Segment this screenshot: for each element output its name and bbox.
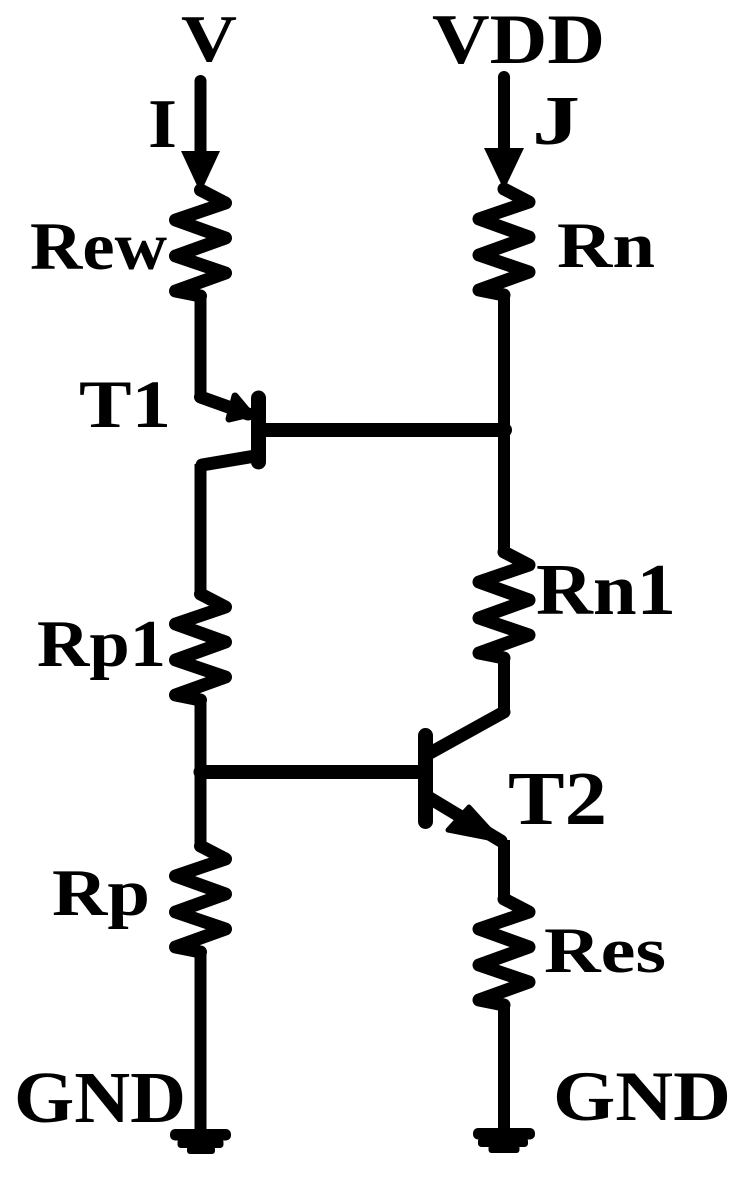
current I arrowhead [181, 151, 220, 193]
svg-text:T2: T2 [508, 757, 607, 841]
wire T2 emitter to Res [498, 840, 510, 899]
resistor Res [479, 899, 529, 1005]
resistor Rew [176, 190, 226, 296]
resistor Rn [479, 189, 529, 295]
svg-text:Rn1: Rn1 [536, 549, 676, 630]
svg-text:GND: GND [14, 1057, 186, 1138]
wire T2 base to left branch node [201, 765, 424, 779]
wire Rp to GND [195, 951, 207, 1133]
svg-text:I: I [148, 86, 177, 163]
svg-text:Res: Res [544, 915, 666, 987]
wire Rn1 to T2 collector [498, 657, 510, 713]
current J arrowhead [484, 148, 524, 190]
wire V supply arrow shaft [195, 81, 207, 158]
wire Rn to Rn1 (right branch through base junction) [498, 294, 510, 552]
svg-text:Rew: Rew [30, 208, 167, 284]
resistor Rn1 [479, 552, 529, 658]
transistor T2 emitter diagonal [428, 797, 501, 841]
svg-text:GND: GND [553, 1058, 731, 1136]
ground symbol right [473, 1128, 535, 1153]
svg-text:Rp1: Rp1 [37, 607, 166, 681]
transistor T1 collector diagonal [202, 456, 255, 465]
transistor T1 base bar [251, 398, 266, 462]
wire Rew to T1 emitter [195, 295, 207, 397]
wire VDD supply arrow shaft [498, 77, 510, 153]
resistor Rp [176, 846, 226, 952]
svg-text:J: J [532, 83, 580, 160]
resistor Rp1 [176, 594, 226, 700]
svg-text:Rp: Rp [52, 856, 150, 930]
wire T1 collector to Rp1 [195, 464, 207, 594]
svg-text:Rn: Rn [557, 210, 655, 282]
transistor T1 emitter arrowhead (PNP, points into base bar) [229, 396, 250, 419]
wire node to Rp [195, 700, 207, 846]
transistor T1 emitter diagonal [201, 397, 249, 414]
transistor T2 collector diagonal [430, 712, 504, 753]
svg-text:V: V [181, 2, 237, 76]
transistor T2 base bar [418, 736, 433, 822]
transistor T2 emitter arrowhead (NPN, points away from bar) [448, 807, 499, 840]
svg-text:VDD: VDD [432, 1, 605, 79]
ground symbol left [170, 1129, 231, 1154]
wire Res to GND [498, 1004, 510, 1132]
wire T1 base to right branch [260, 423, 505, 437]
svg-text:T1: T1 [79, 366, 171, 442]
